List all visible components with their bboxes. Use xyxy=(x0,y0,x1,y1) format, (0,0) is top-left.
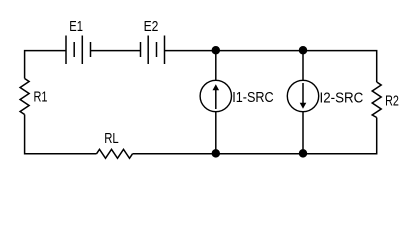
svg-text:R2: R2 xyxy=(385,93,399,109)
svg-text:E2: E2 xyxy=(144,19,159,35)
svg-text:I2-SRC: I2-SRC xyxy=(320,90,364,106)
svg-text:RL: RL xyxy=(104,131,119,147)
svg-text:R1: R1 xyxy=(34,89,48,105)
svg-text:I1-SRC: I1-SRC xyxy=(232,90,274,106)
svg-text:E1: E1 xyxy=(69,19,83,35)
